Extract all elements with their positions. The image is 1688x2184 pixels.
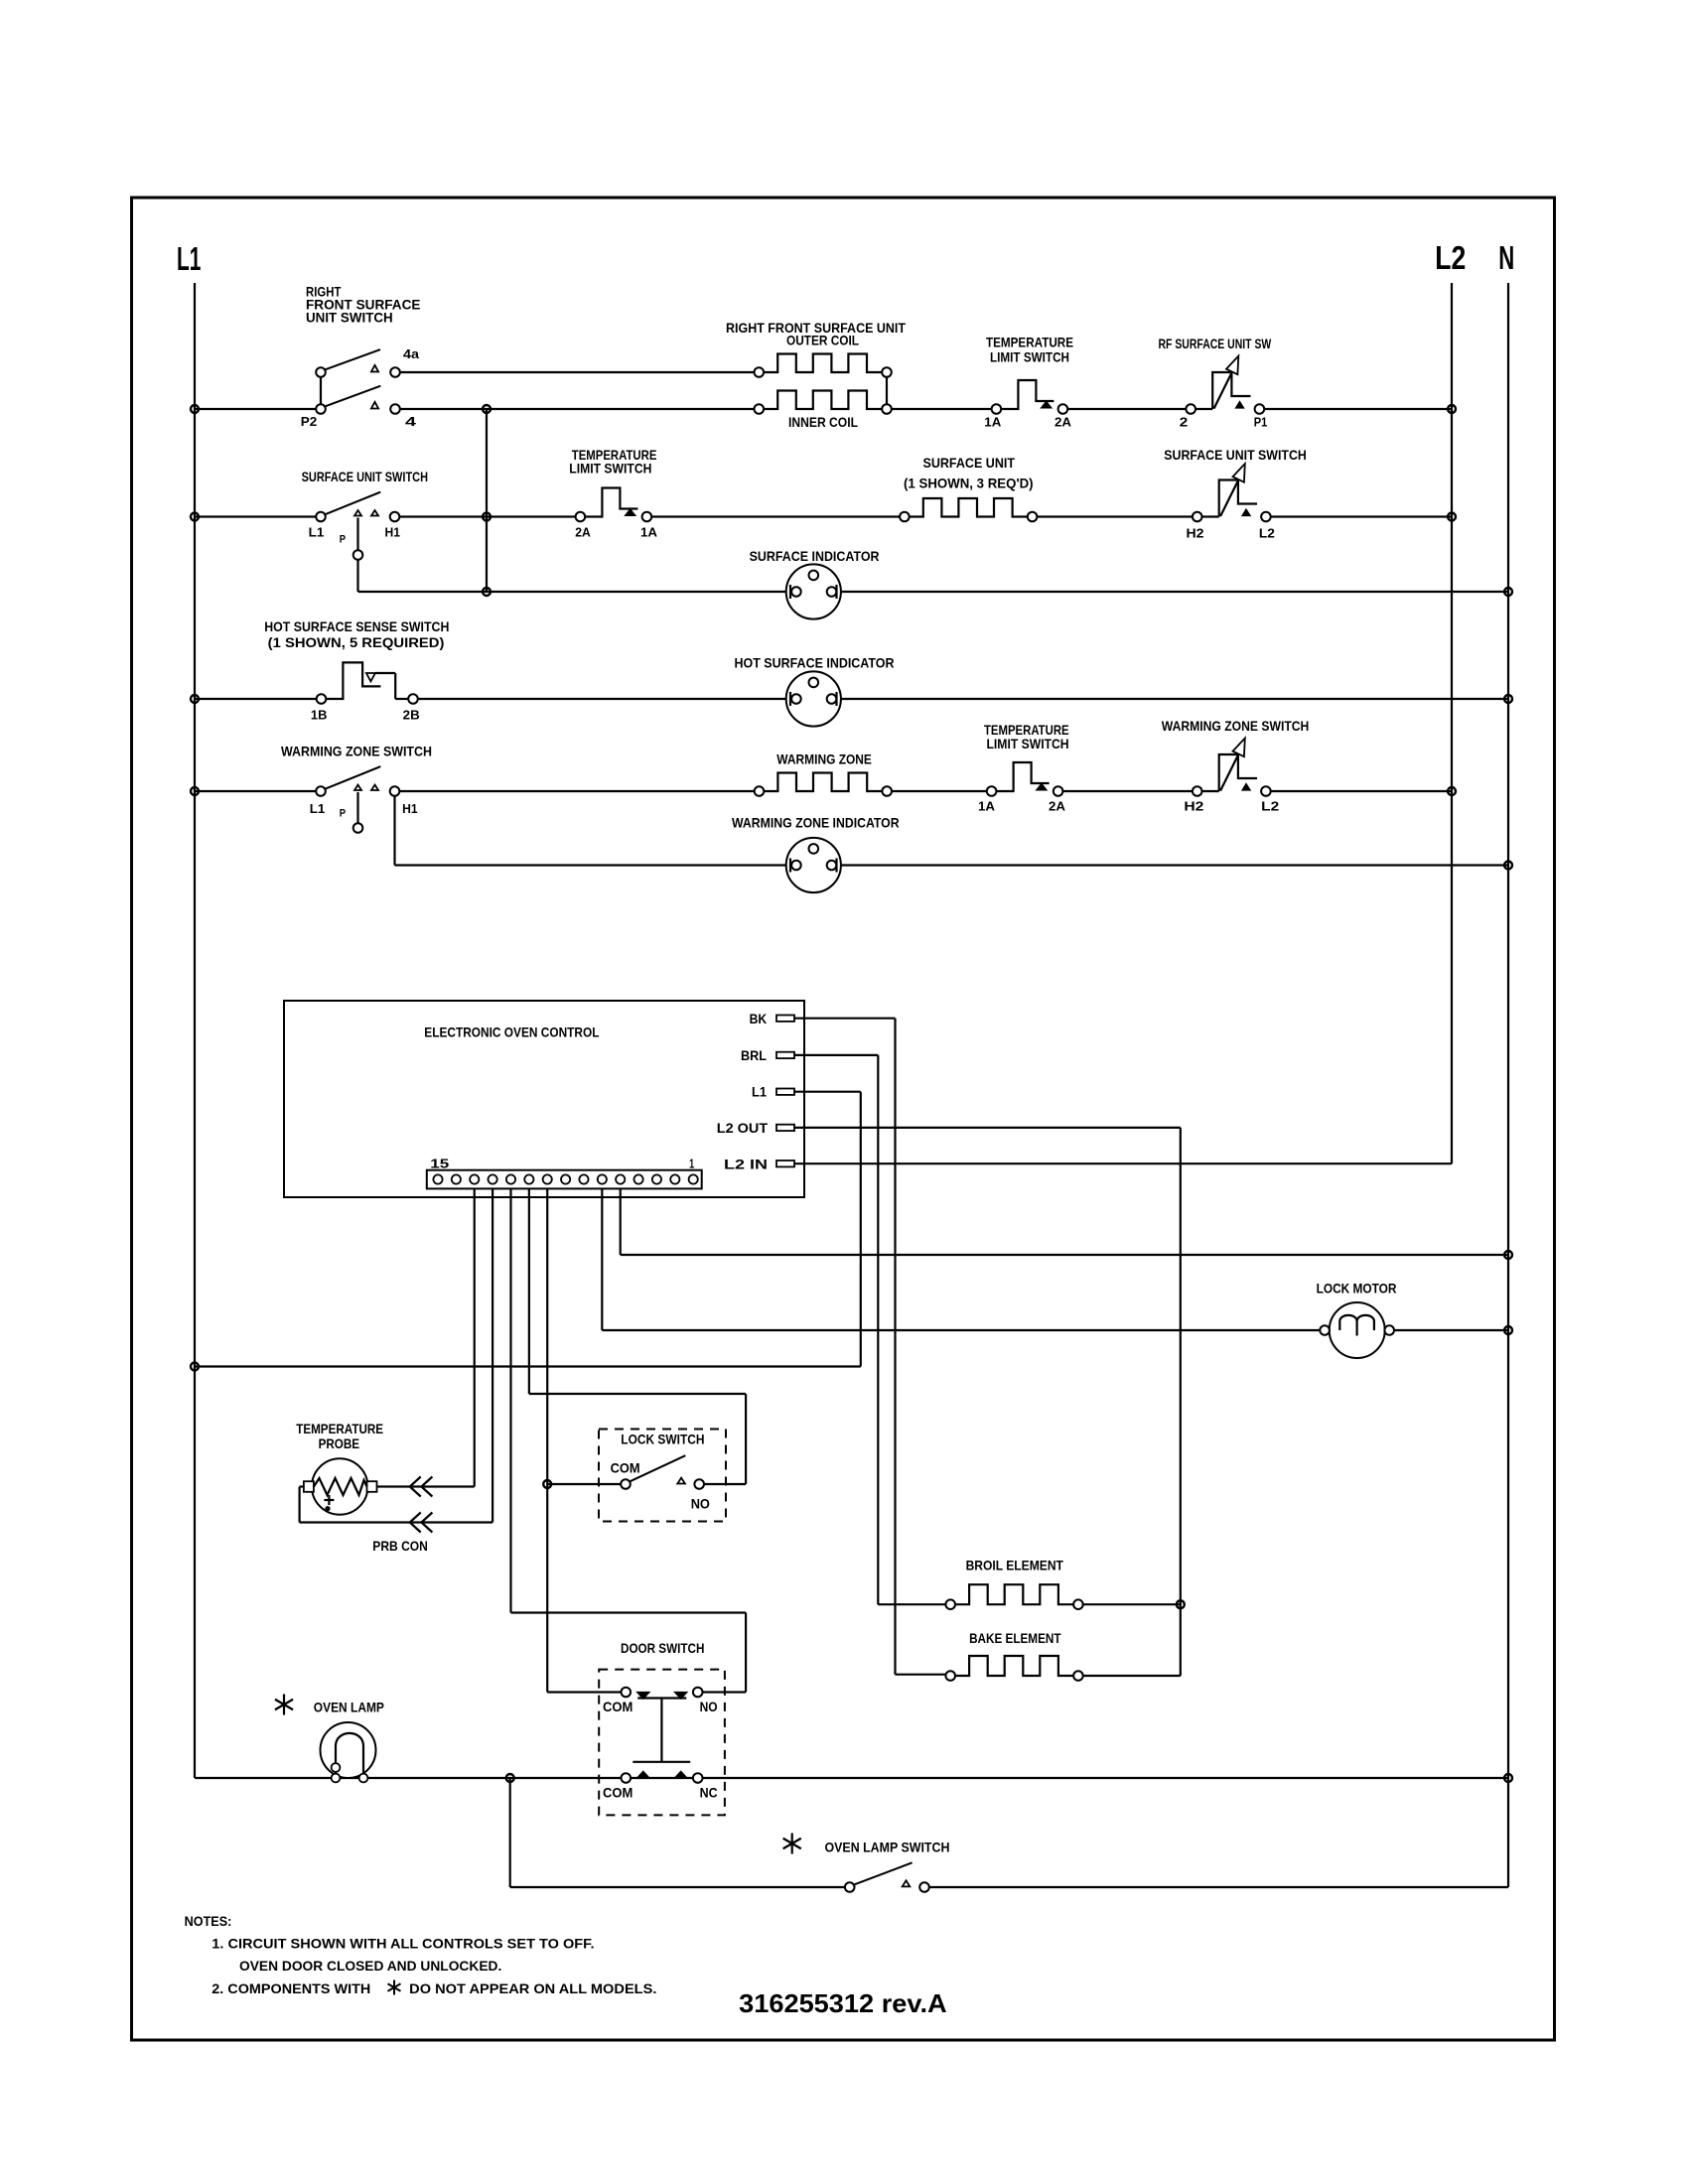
svg-text:PROBE: PROBE [319,1435,360,1451]
svg-text:1. CIRCUIT SHOWN WITH ALL CON: 1. CIRCUIT SHOWN WITH ALL CONTROLS SET T… [211,1936,594,1952]
svg-text:DOOR SWITCH: DOOR SWITCH [621,1640,704,1656]
svg-text:P1: P1 [1254,415,1268,430]
svg-text:HOT SURFACE SENSE SWITCH: HOT SURFACE SENSE SWITCH [264,618,449,634]
svg-text:L1: L1 [177,240,201,277]
svg-text:1: 1 [689,1157,694,1171]
svg-text:SURFACE UNIT SWITCH: SURFACE UNIT SWITCH [302,469,428,484]
svg-text:1A: 1A [640,525,658,540]
svg-text:(1 SHOWN, 3 REQ'D): (1 SHOWN, 3 REQ'D) [904,476,1034,491]
svg-text:LOCK MOTOR: LOCK MOTOR [1317,1281,1397,1297]
svg-text:2B: 2B [403,708,420,723]
svg-text:L2: L2 [1259,525,1275,540]
svg-text:TEMPERATURE: TEMPERATURE [296,1421,383,1436]
svg-text:PRB CON: PRB CON [372,1538,428,1554]
svg-text:OVEN LAMP: OVEN LAMP [314,1700,384,1715]
svg-text:L2: L2 [1435,239,1466,276]
svg-text:P2: P2 [301,414,318,429]
svg-text:2. COMPONENTS WITH: 2. COMPONENTS WITH [211,1980,370,1996]
svg-text:316255312 rev.A: 316255312 rev.A [739,1988,947,2018]
svg-text:OVEN LAMP SWITCH: OVEN LAMP SWITCH [825,1840,950,1855]
svg-text:4a: 4a [403,346,420,361]
svg-text:INNER COIL: INNER COIL [788,414,858,430]
svg-text:LIMIT SWITCH: LIMIT SWITCH [569,461,651,477]
svg-text:2A: 2A [575,525,591,540]
svg-text:L1: L1 [310,801,326,816]
svg-text:(1 SHOWN, 5 REQUIRED): (1 SHOWN, 5 REQUIRED) [268,634,445,650]
svg-text:N: N [1498,239,1514,276]
svg-text:COM: COM [611,1460,640,1476]
svg-text:UNIT SWITCH: UNIT SWITCH [306,310,393,326]
svg-text:L1: L1 [752,1084,767,1100]
svg-text:P: P [340,808,346,820]
svg-text:P: P [340,534,346,546]
svg-text:L2 OUT: L2 OUT [717,1120,769,1136]
svg-text:2: 2 [1180,415,1189,430]
svg-text:SURFACE INDICATOR: SURFACE INDICATOR [750,548,880,564]
svg-text:1A: 1A [978,799,996,814]
svg-text:SURFACE UNIT SWITCH: SURFACE UNIT SWITCH [1164,447,1307,463]
svg-text:WARMING ZONE INDICATOR: WARMING ZONE INDICATOR [732,815,900,831]
svg-text:COM: COM [603,1699,633,1714]
svg-text:NO: NO [700,1699,718,1714]
svg-text:BROIL ELEMENT: BROIL ELEMENT [966,1558,1064,1573]
svg-text:4: 4 [405,414,417,429]
svg-text:LOCK SWITCH: LOCK SWITCH [621,1432,704,1447]
svg-text:LIMIT SWITCH: LIMIT SWITCH [990,349,1069,365]
svg-text:NC: NC [700,1785,718,1801]
svg-text:RF SURFACE UNIT SW: RF SURFACE UNIT SW [1159,336,1272,351]
svg-text:15: 15 [430,1157,449,1171]
svg-text:2A: 2A [1049,799,1066,814]
svg-text:1A: 1A [984,415,1002,430]
svg-text:H1: H1 [385,525,401,540]
svg-text:BAKE ELEMENT: BAKE ELEMENT [969,1630,1061,1646]
svg-text:H1: H1 [402,801,418,816]
svg-text:OVEN DOOR CLOSED AND UNLOCKED.: OVEN DOOR CLOSED AND UNLOCKED. [239,1958,501,1974]
svg-text:LIMIT SWITCH: LIMIT SWITCH [987,736,1069,751]
svg-text:L1: L1 [309,525,325,540]
svg-text:NOTES:: NOTES: [185,1913,232,1929]
svg-text:SURFACE UNIT: SURFACE UNIT [923,455,1016,471]
svg-text:BRL: BRL [741,1047,767,1063]
svg-text:NO: NO [691,1496,710,1512]
svg-text:1B: 1B [311,708,328,723]
svg-text:COM: COM [603,1785,633,1801]
svg-text:WARMING ZONE SWITCH: WARMING ZONE SWITCH [281,744,432,759]
svg-text:L2 IN: L2 IN [724,1157,768,1172]
svg-text:DO NOT APPEAR ON ALL MODELS.: DO NOT APPEAR ON ALL MODELS. [409,1980,656,1996]
svg-text:H2: H2 [1187,525,1204,540]
svg-text:H2: H2 [1184,799,1203,814]
svg-text:WARMING ZONE SWITCH: WARMING ZONE SWITCH [1162,718,1310,734]
svg-text:WARMING ZONE: WARMING ZONE [776,751,872,767]
svg-text:ELECTRONIC OVEN CONTROL: ELECTRONIC OVEN CONTROL [424,1024,600,1040]
svg-text:BK: BK [750,1011,768,1026]
svg-text:OUTER COIL: OUTER COIL [786,333,859,348]
svg-text:TEMPERATURE: TEMPERATURE [986,335,1073,350]
svg-text:HOT SURFACE INDICATOR: HOT SURFACE INDICATOR [735,655,895,671]
svg-text:L2: L2 [1261,799,1279,814]
svg-text:2A: 2A [1055,415,1072,430]
